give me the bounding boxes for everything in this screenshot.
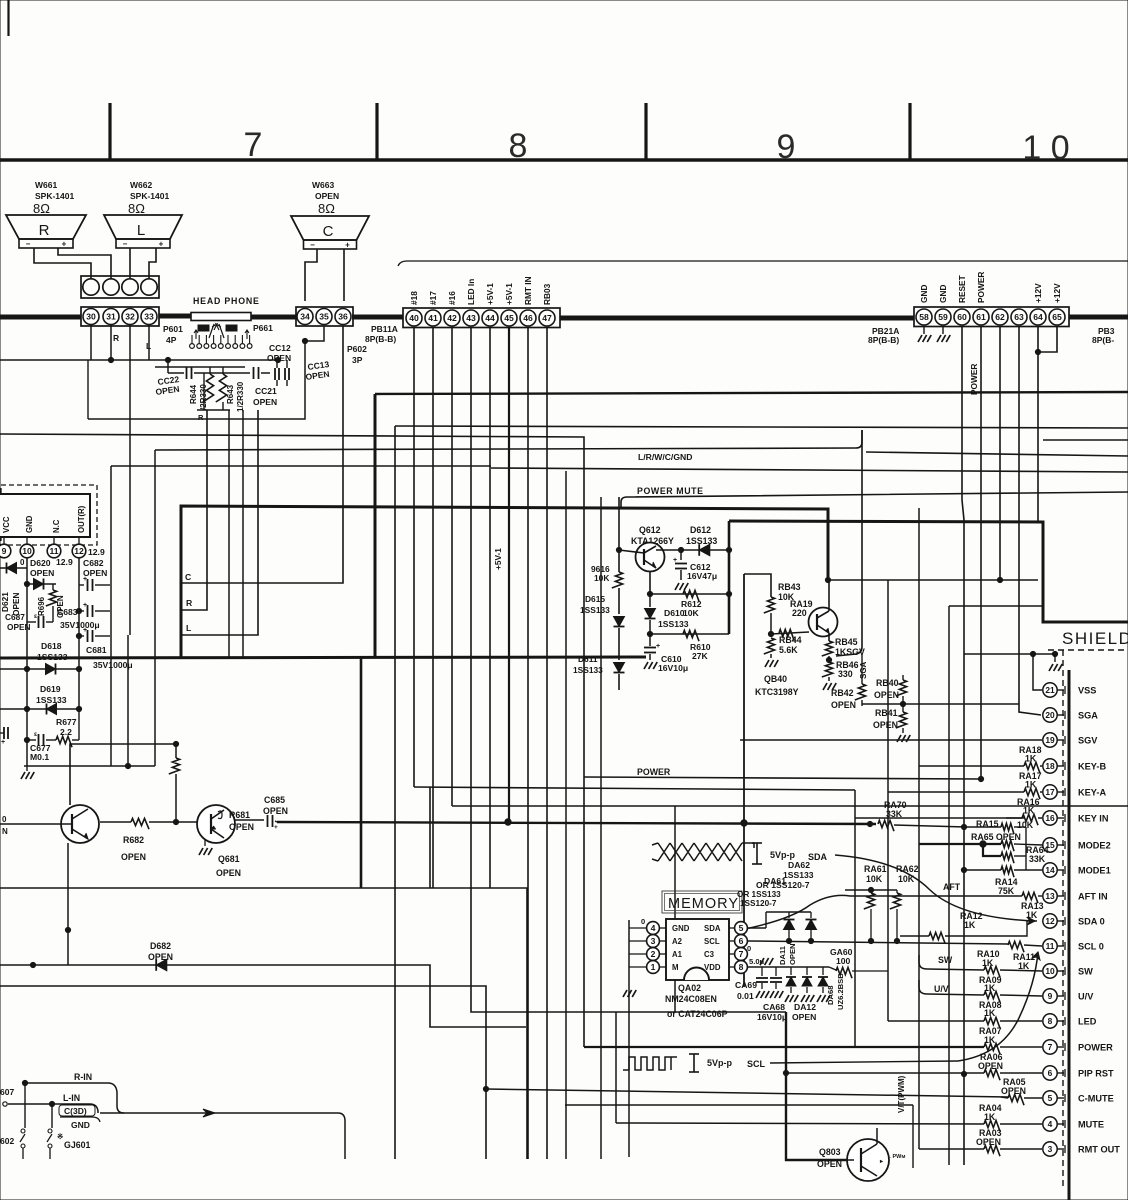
resistor RA65 MODE2 <box>919 843 1001 845</box>
shield dashed line <box>1048 649 1128 651</box>
svg-text:5: 5 <box>739 923 744 933</box>
svg-text:D615: D615 <box>585 594 605 604</box>
svg-text:14: 14 <box>1045 865 1055 875</box>
svg-text:C685: C685 <box>264 795 285 805</box>
svg-text:1K: 1K <box>1025 754 1037 764</box>
svg-text:OUT(R): OUT(R) <box>77 505 86 533</box>
resistor RA03 RMT OUT <box>919 1148 984 1150</box>
resistor RB46 <box>822 662 833 677</box>
wire SGA row y703 <box>862 703 1019 705</box>
svg-text:OPEN: OPEN <box>976 1137 1001 1147</box>
svg-text:1K: 1K <box>1025 780 1037 790</box>
svg-text:1K: 1K <box>984 983 996 993</box>
svg-text:330: 330 <box>838 669 853 679</box>
resistor RA18 KEY-B <box>919 765 1024 767</box>
svg-text:GND: GND <box>25 515 34 533</box>
memory pin 6 <box>735 935 748 948</box>
wire x619 chain <box>618 497 620 572</box>
svg-text:220: 220 <box>792 608 807 618</box>
connector pin 61 <box>973 309 989 325</box>
svg-text:R677: R677 <box>56 717 77 727</box>
wire x675 <box>674 806 676 1012</box>
IC pin 16 KEY IN <box>1043 811 1057 825</box>
svg-text:8Ω: 8Ω <box>128 201 145 216</box>
connector pin 32 <box>122 309 138 325</box>
connector pin 36 <box>335 309 351 325</box>
resistor RA05 C-MUTE <box>1001 1097 1008 1098</box>
svg-text:PIP RST: PIP RST <box>1078 1069 1114 1079</box>
svg-text:8P(B-B): 8P(B-B) <box>365 334 396 344</box>
svg-text:+: + <box>83 627 87 634</box>
thick net y507 <box>181 506 828 658</box>
AFT IN wire <box>740 895 1022 930</box>
svg-text:U/V: U/V <box>1078 992 1094 1002</box>
svg-text:1 0: 1 0 <box>1022 129 1069 167</box>
svg-text:SDA 0: SDA 0 <box>1078 917 1105 927</box>
svg-text:0: 0 <box>747 944 751 953</box>
wire x862 SGA riser <box>836 430 862 656</box>
svg-text:C687: C687 <box>5 612 25 622</box>
svg-text:7: 7 <box>1048 1042 1053 1052</box>
svg-text:C681: C681 <box>86 645 107 655</box>
svg-text:DA61: DA61 <box>764 876 786 886</box>
svg-text:0.01: 0.01 <box>737 991 754 1001</box>
svg-text:−: − <box>310 241 315 250</box>
svg-text:12: 12 <box>1045 916 1055 926</box>
svg-text:43: 43 <box>466 313 476 323</box>
svg-text:46: 46 <box>523 313 533 323</box>
wire x430 <box>429 787 431 888</box>
svg-text:A1: A1 <box>672 950 683 959</box>
svg-text:CC21: CC21 <box>255 386 277 396</box>
resistor RA15 <box>964 826 1001 828</box>
svg-text:R696: R696 <box>37 596 46 616</box>
thick net x375 <box>374 394 377 658</box>
thick net y522 +12V <box>729 521 1128 622</box>
svg-text:R: R <box>113 333 119 343</box>
IC pin 6 PIP RST <box>1043 1066 1057 1080</box>
IC pin 12 <box>78 537 80 544</box>
svg-text:RB41: RB41 <box>875 708 898 718</box>
diode D618 <box>0 668 79 670</box>
svg-text:8P(B-: 8P(B- <box>1092 335 1114 345</box>
svg-text:33K: 33K <box>1029 854 1046 864</box>
svg-text:※: ※ <box>57 1132 64 1141</box>
svg-text:8: 8 <box>739 962 744 972</box>
svg-text:RMT OUT: RMT OUT <box>1078 1145 1120 1155</box>
wire center arrow <box>100 1113 345 1159</box>
svg-text:59: 59 <box>938 312 948 322</box>
svg-text:DA12: DA12 <box>794 1002 816 1012</box>
svg-text:19: 19 <box>1045 735 1055 745</box>
wire node row y360 <box>0 359 278 361</box>
resistor R682 <box>131 818 149 829</box>
svg-text:SGA: SGA <box>1078 711 1098 721</box>
connector pin 60 <box>954 309 970 325</box>
svg-text:21: 21 <box>1045 685 1055 695</box>
wire KEY IN pin line <box>855 817 1024 819</box>
svg-text:1SS133: 1SS133 <box>783 870 814 880</box>
connector pin 62 <box>992 309 1008 325</box>
connector pin 64 <box>1030 309 1046 325</box>
svg-text:6: 6 <box>1048 1068 1053 1078</box>
resistor RA16 KEY IN <box>1006 817 1022 819</box>
svg-text:16V10μ: 16V10μ <box>757 1012 787 1022</box>
IC pin 13 AFT IN <box>1043 889 1057 903</box>
ground left cluster <box>26 766 28 771</box>
wire net y787 <box>414 787 855 790</box>
ground pin58 <box>923 326 925 334</box>
wire Q612 right <box>656 549 729 551</box>
wire pin12 down <box>78 558 80 709</box>
svg-text:1/2R330: 1/2R330 <box>236 381 245 412</box>
resistor RB42 on SGA <box>861 654 863 684</box>
wire net y471 <box>491 468 1128 472</box>
svg-text:607: 607 <box>0 1087 14 1097</box>
connector pin 30 <box>83 309 99 325</box>
svg-text:+: + <box>274 824 278 831</box>
resistor RA19 <box>779 629 794 640</box>
wire x395 drop <box>394 426 396 1159</box>
wire net y394 <box>375 392 1128 394</box>
IC pin 8 LED <box>1043 1014 1057 1028</box>
wire #17 drop <box>432 327 434 888</box>
svg-text:RB42: RB42 <box>831 688 854 698</box>
svg-text:33K: 33K <box>886 809 903 819</box>
svg-text:+5V-1: +5V-1 <box>485 283 495 305</box>
capacitor C682 <box>79 584 84 586</box>
svg-text:C(3D): C(3D) <box>64 1106 87 1116</box>
diode D619 <box>0 708 79 710</box>
svg-text:10K: 10K <box>866 874 883 884</box>
resistor R610 <box>683 630 699 641</box>
svg-text:8: 8 <box>509 127 528 165</box>
svg-text:45: 45 <box>504 313 514 323</box>
transistor QB40 <box>809 608 838 637</box>
svg-text:R: R <box>186 598 193 608</box>
svg-text:0: 0 <box>20 558 25 567</box>
svg-text:+12V: +12V <box>1033 283 1043 303</box>
IC pin 15 MODE2 <box>1043 838 1057 852</box>
svg-text:0: 0 <box>2 815 7 824</box>
svg-text:P661: P661 <box>253 323 273 333</box>
svg-text:+12V: +12V <box>1052 283 1062 303</box>
connector pins 30-33 box <box>81 307 159 326</box>
wire x919 <box>918 508 920 1149</box>
wire net y822 KEY IN <box>277 822 876 824</box>
svg-text:R681: R681 <box>229 810 250 820</box>
wire y606 <box>949 605 1043 607</box>
wire QB40 collector <box>828 580 830 611</box>
capacitor CA69 <box>761 967 763 976</box>
svg-text:KEY-A: KEY-A <box>1078 788 1106 798</box>
svg-text:3: 3 <box>651 936 656 946</box>
transistor Q612 <box>636 543 665 572</box>
svg-text:C3: C3 <box>704 950 715 959</box>
connector pin (plain) <box>122 279 138 295</box>
connector pin 44 <box>482 310 498 326</box>
headphone terminal pins <box>190 344 195 349</box>
wire #18 drop <box>413 327 415 787</box>
svg-text:16V47μ: 16V47μ <box>687 571 717 581</box>
connector pin 46 <box>520 310 536 326</box>
svg-text:HEAD PHONE: HEAD PHONE <box>193 296 260 306</box>
capacitor C687 <box>27 621 36 623</box>
headphone contact block 1 <box>198 325 209 331</box>
IC pin 9 <box>3 537 5 544</box>
svg-text:OPEN: OPEN <box>873 720 898 730</box>
svg-text:61: 61 <box>976 312 986 322</box>
resistor RB40 <box>902 675 904 680</box>
memory pin 5 <box>735 922 748 935</box>
svg-text:AFT IN: AFT IN <box>1078 892 1108 902</box>
wire POWER drop <box>980 326 982 777</box>
svg-text:36: 36 <box>338 312 348 322</box>
svg-text:Q612: Q612 <box>639 525 661 535</box>
svg-text:47: 47 <box>542 313 552 323</box>
wire x128 from pin32 <box>129 367 131 635</box>
SW wire <box>919 955 984 970</box>
svg-text:6: 6 <box>739 936 744 946</box>
wire x855 <box>854 790 856 1047</box>
diode DA68 <box>822 967 824 975</box>
svg-text:A2: A2 <box>672 937 683 946</box>
svg-text:+: + <box>656 643 660 650</box>
svg-text:1K: 1K <box>1018 961 1030 971</box>
wire x1043 from +12V pins <box>1038 326 1057 352</box>
svg-text:3: 3 <box>1048 1144 1053 1154</box>
svg-text:OPEN: OPEN <box>263 806 288 816</box>
wire R610 row <box>650 633 729 635</box>
svg-text:AFT: AFT <box>943 882 961 892</box>
diode DA12 <box>806 967 808 975</box>
wire net y426 <box>395 426 1128 428</box>
svg-text:R-IN: R-IN <box>74 1072 92 1082</box>
wire Q681 base/ground <box>176 821 197 823</box>
connector pin 58 <box>916 309 932 325</box>
diode D620 <box>27 583 56 585</box>
memory pin 4 <box>647 922 660 935</box>
wire VDD node row <box>748 966 829 968</box>
svg-text:+: + <box>159 240 164 249</box>
svg-text:1SS133: 1SS133 <box>36 695 67 705</box>
capacitor C612 <box>680 550 682 560</box>
svg-text:9: 9 <box>2 546 7 556</box>
headphone terminal arrows <box>194 330 198 339</box>
svg-text:ε: ε <box>34 613 37 620</box>
wire net D682 y965 <box>0 965 526 1027</box>
svg-text:RA62: RA62 <box>896 864 919 874</box>
svg-text:65: 65 <box>1052 312 1062 322</box>
svg-text:RB43: RB43 <box>778 582 801 592</box>
svg-text:5.6K: 5.6K <box>779 645 798 655</box>
svg-text:SCL 0: SCL 0 <box>1078 942 1104 952</box>
svg-text:C-MUTE: C-MUTE <box>1078 1094 1114 1104</box>
svg-text:OPEN: OPEN <box>817 1159 842 1169</box>
speaker W663 C <box>291 216 369 240</box>
memory pin 2 <box>647 948 660 961</box>
connector pin 42 <box>444 310 460 326</box>
svg-text:MEMORY: MEMORY <box>668 896 739 912</box>
memory pin 1 <box>647 961 660 974</box>
level bar SDA <box>756 843 758 864</box>
svg-text:D618: D618 <box>41 641 62 651</box>
svg-text:4P: 4P <box>166 335 177 345</box>
svg-text:OPEN: OPEN <box>792 1012 816 1022</box>
svg-text:N: N <box>2 827 8 836</box>
connector pin 31 <box>103 309 119 325</box>
capacitor CA68 <box>775 967 777 976</box>
svg-text:L: L <box>186 623 191 633</box>
svg-text:1K: 1K <box>964 920 976 930</box>
wire net y888 <box>0 888 527 1159</box>
svg-text:D619: D619 <box>40 684 61 694</box>
IC dashed box <box>1 485 97 545</box>
svg-text:1KSGV: 1KSGV <box>835 647 865 657</box>
IC pin 19 SGV <box>1043 733 1057 747</box>
svg-text:POWER: POWER <box>1078 1043 1113 1053</box>
wire node row y367 <box>155 366 245 368</box>
ground pin59 <box>942 326 944 334</box>
left edge capacitor <box>0 732 4 734</box>
svg-text:16: 16 <box>1045 813 1055 823</box>
wire SGV y740 <box>740 739 1042 741</box>
svg-text:C683: C683 <box>57 607 78 617</box>
svg-text:D612: D612 <box>690 525 711 535</box>
left page edge line <box>7 0 9 36</box>
svg-text:W663: W663 <box>312 180 334 190</box>
svg-text:63: 63 <box>1014 312 1024 322</box>
wire R612 row <box>650 593 729 595</box>
connector pin (plain) <box>103 279 119 295</box>
capacitor CC21 <box>204 372 250 374</box>
svg-text:SGV: SGV <box>1078 736 1098 746</box>
memory pin 3 <box>647 935 660 948</box>
connector pin (plain) <box>83 279 99 295</box>
svg-text:−: − <box>123 240 128 249</box>
svg-text:M: M <box>672 963 679 972</box>
svg-text:1SS133: 1SS133 <box>658 619 689 629</box>
svg-text:35V1000μ: 35V1000μ <box>60 620 100 630</box>
resistor RA07 POWER <box>584 1046 984 1048</box>
svg-text:SDA: SDA <box>704 924 721 933</box>
svg-text:32: 32 <box>125 312 135 322</box>
svg-text:35V1000μ: 35V1000μ <box>93 660 133 670</box>
capacitor C610 <box>644 647 656 649</box>
svg-text:POWER MUTE: POWER MUTE <box>637 486 704 496</box>
svg-text:QA02: QA02 <box>678 983 701 993</box>
svg-text:16V10μ: 16V10μ <box>658 663 688 673</box>
wire pin63 / SGA drop <box>1019 326 1041 715</box>
svg-text:R682: R682 <box>123 835 144 845</box>
IC pin 9 U/V <box>1043 989 1057 1003</box>
capacitor C683 <box>79 610 84 612</box>
svg-text:OPEN: OPEN <box>831 700 856 710</box>
svg-text:N.C: N.C <box>52 519 61 533</box>
svg-text:10K: 10K <box>898 874 915 884</box>
SDA curve <box>835 855 1035 921</box>
connector pin 34 <box>297 309 313 325</box>
wire x601 <box>600 497 602 1159</box>
svg-text:11: 11 <box>49 546 58 556</box>
svg-text:Q803: Q803 <box>819 1147 841 1157</box>
svg-text:SGA: SGA <box>859 661 868 679</box>
svg-text:7: 7 <box>739 949 744 959</box>
svg-text:1SS120-7: 1SS120-7 <box>740 899 777 908</box>
wire +5V-1 drop 44 <box>489 327 491 888</box>
wire x155 <box>154 450 156 766</box>
wire net y1089 <box>486 1089 1008 1097</box>
main board edge bus <box>0 315 81 320</box>
resistor R644 <box>203 374 214 402</box>
speaker W662 L <box>104 215 182 239</box>
resistor RA14 MODE1 <box>1001 866 1014 877</box>
svg-text:1SS133: 1SS133 <box>37 652 68 662</box>
svg-text:M0.1: M0.1 <box>30 752 49 762</box>
svg-text:10: 10 <box>1045 966 1055 976</box>
svg-text:8P(B-B): 8P(B-B) <box>868 335 899 345</box>
svg-text:or CAT24C06P: or CAT24C06P <box>667 1009 728 1019</box>
connector pin 40 <box>406 310 422 326</box>
svg-text:1SS133: 1SS133 <box>573 665 603 675</box>
IC pin 21 VSS <box>1043 683 1057 697</box>
svg-text:SHIELD: SHIELD <box>1062 629 1128 648</box>
IC pin 4 MUTE <box>1043 1117 1057 1131</box>
svg-text:C: C <box>323 223 334 240</box>
wire RMT IN drop <box>527 327 529 1159</box>
label MEMORY <box>662 891 742 913</box>
svg-text:1SS133: 1SS133 <box>580 605 610 615</box>
svg-text:64: 64 <box>1033 312 1043 322</box>
wire L-IN <box>8 1104 98 1113</box>
connector pin 33 <box>141 309 157 325</box>
headphone jack body <box>191 313 251 321</box>
svg-text:27K: 27K <box>692 651 709 661</box>
speaker W661 R <box>6 215 86 239</box>
connector pin 65 <box>1049 309 1065 325</box>
capacitor C677 + resistor R677 <box>27 739 36 741</box>
IC pin 7 POWER <box>1043 1040 1057 1054</box>
wire x888 / LED feed <box>887 580 889 1021</box>
svg-text:D682: D682 <box>150 941 171 951</box>
svg-text:D611: D611 <box>578 654 598 664</box>
wire Q803 collector <box>876 1128 878 1144</box>
svg-text:60: 60 <box>957 312 967 322</box>
svg-text:11: 11 <box>1046 941 1055 951</box>
svg-text:SPK-1401: SPK-1401 <box>130 191 169 201</box>
svg-text:RA65 OPEN: RA65 OPEN <box>971 832 1021 842</box>
svg-text:OPEN: OPEN <box>121 852 146 862</box>
svg-text:R: R <box>39 222 50 239</box>
svg-text:OPEN: OPEN <box>216 868 241 878</box>
svg-text:MODE1: MODE1 <box>1078 866 1111 876</box>
svg-text:4: 4 <box>651 923 656 933</box>
IC pin 11 SCL 0 <box>1043 939 1057 953</box>
svg-text:V/T(PWM): V/T(PWM) <box>897 1075 906 1113</box>
svg-text:8: 8 <box>1048 1016 1053 1026</box>
svg-text:58: 58 <box>919 312 929 322</box>
IC pin 14 MODE1 <box>1043 863 1057 877</box>
connector pin 63 <box>1011 309 1027 325</box>
wire RESET drop <box>962 326 964 1165</box>
wire R net <box>182 410 207 610</box>
svg-text:GND: GND <box>938 285 948 303</box>
svg-text:10: 10 <box>22 546 32 556</box>
wire POWER MUTE <box>621 492 1128 508</box>
resistor R616 <box>612 572 623 588</box>
thick net y658 <box>0 657 646 658</box>
svg-text:Q681: Q681 <box>218 854 240 864</box>
